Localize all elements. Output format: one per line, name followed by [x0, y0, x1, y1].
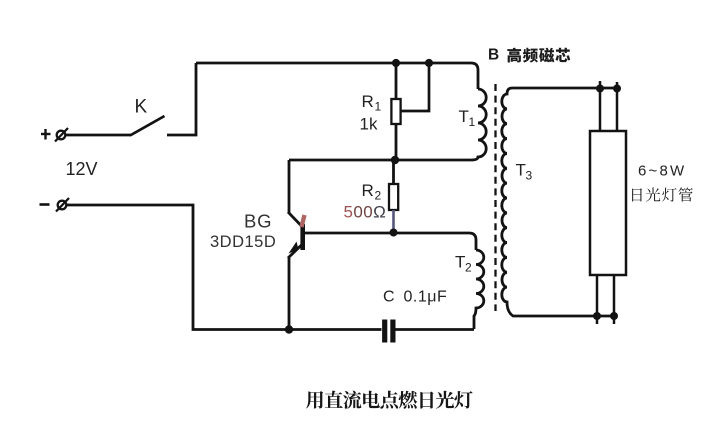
svg-text:C: C — [383, 289, 395, 306]
wire switch contact to top riser — [167, 63, 196, 135]
transistor BG 3DD15D — [288, 160, 305, 330]
svg-text:3: 3 — [526, 169, 533, 183]
svg-text:T: T — [459, 107, 469, 126]
svg-text:BG: BG — [244, 211, 272, 232]
wire capacitor to T2 — [395, 328, 474, 331]
caption use DC to light fluorescent lamp — [306, 391, 323, 409]
label - — [40, 203, 50, 206]
node plus terminal — [55, 128, 68, 142]
lamp tube rectangle — [590, 131, 626, 275]
resistor R2 — [389, 160, 398, 232]
svg-text:R: R — [362, 92, 374, 111]
svg-text:R: R — [362, 181, 374, 200]
node lamp bottom junctions — [593, 312, 601, 320]
wire lamp top pins — [600, 81, 617, 131]
node junction tap top — [425, 59, 433, 67]
svg-text:1: 1 — [469, 115, 476, 129]
svg-text:2: 2 — [465, 261, 472, 275]
label high frequency core — [507, 48, 521, 63]
label fluorescent tube — [632, 188, 642, 201]
node junction middle rail — [391, 156, 399, 164]
svg-text:1: 1 — [375, 100, 382, 114]
node lamp top junctions — [596, 85, 604, 93]
svg-text:K: K — [135, 97, 148, 118]
core dashed line B — [494, 84, 496, 311]
svg-text:B: B — [488, 47, 499, 64]
node junction top R1 — [392, 59, 400, 67]
wire R1 tap — [401, 63, 430, 111]
wire minus terminal to bottom rail — [66, 205, 382, 330]
node junction R2 base — [390, 229, 398, 237]
inductor T3 winding — [502, 88, 618, 316]
wire base rail to T2 — [305, 233, 476, 250]
capacitor C plates — [385, 320, 393, 343]
wire lamp bottom pins — [597, 275, 614, 324]
svg-text:3DD15D: 3DD15D — [210, 233, 276, 251]
svg-text:12V: 12V — [66, 159, 98, 179]
switch K blade — [130, 116, 165, 136]
inductor T1 winding — [471, 89, 486, 160]
node junction emitter bottom — [285, 325, 293, 333]
svg-text:6~8W: 6~8W — [638, 163, 686, 180]
svg-text:0.1μF: 0.1μF — [404, 289, 448, 306]
wire plus terminal to switch — [65, 134, 131, 137]
svg-text:1k: 1k — [360, 115, 378, 134]
inductor T2 winding — [474, 250, 484, 329]
svg-text:T: T — [455, 253, 465, 272]
svg-text:2: 2 — [375, 189, 382, 203]
wire top rail to T1 — [196, 63, 478, 89]
resistor R1 — [391, 63, 400, 160]
label + — [41, 129, 51, 140]
svg-text:T: T — [516, 161, 526, 180]
transistor arrow mark red — [302, 215, 305, 227]
svg-text:500Ω: 500Ω — [344, 203, 387, 222]
wire middle rail — [289, 159, 471, 162]
node minus terminal — [56, 198, 69, 212]
